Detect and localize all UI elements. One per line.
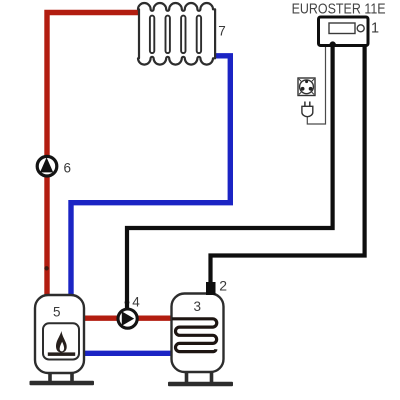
flame — [56, 331, 67, 353]
pump 6 (circulation pump, up arrow) — [37, 156, 57, 176]
sensor 2 on tank top — [206, 282, 216, 295]
wire: black cable from thermostat to pump 4 — [127, 44, 333, 310]
pump 4 (charging pump, right arrow) — [118, 309, 137, 328]
radiator 7 — [138, 3, 215, 65]
burner window — [43, 323, 79, 359]
svg-text:EUROSTER 11E: EUROSTER 11E — [292, 1, 386, 18]
wire: red supply pipe (radiator top-left, down to boiler) — [47, 13, 141, 297]
node: junction dot on pump-4 cable — [125, 300, 130, 305]
wire: black cable from thermostat to tank sensor — [211, 44, 365, 284]
svg-text:2: 2 — [219, 278, 227, 294]
wire: blue return pipe (radiator bottom-right, down, left, down to boiler) — [71, 56, 230, 296]
svg-text:3: 3 — [194, 299, 202, 314]
svg-text:1: 1 — [371, 20, 379, 36]
boiler base — [30, 381, 95, 386]
tank 3 — [168, 294, 233, 387]
boiler legs — [50, 373, 72, 382]
wire: blue pipe boiler to tank coil — [82, 351, 178, 356]
node: tee dot on red pipe — [44, 266, 48, 270]
wire: red pipe boiler to tank coil — [82, 316, 174, 321]
svg-text:6: 6 — [64, 161, 72, 176]
tank legs — [187, 372, 212, 383]
boiler 5 — [30, 295, 95, 385]
svg-text:4: 4 — [132, 294, 140, 309]
heating coil — [172, 319, 217, 352]
svg-text:7: 7 — [218, 24, 226, 39]
tank base — [168, 382, 233, 387]
svg-text:5: 5 — [53, 305, 61, 320]
thermostat U1 EUROSTER 11E — [319, 17, 369, 48]
wire: thin mains lead from thermostat to plug — [307, 45, 325, 124]
burner bar — [48, 352, 75, 356]
socket (mains outlet) — [298, 78, 315, 96]
plug — [302, 102, 313, 117]
